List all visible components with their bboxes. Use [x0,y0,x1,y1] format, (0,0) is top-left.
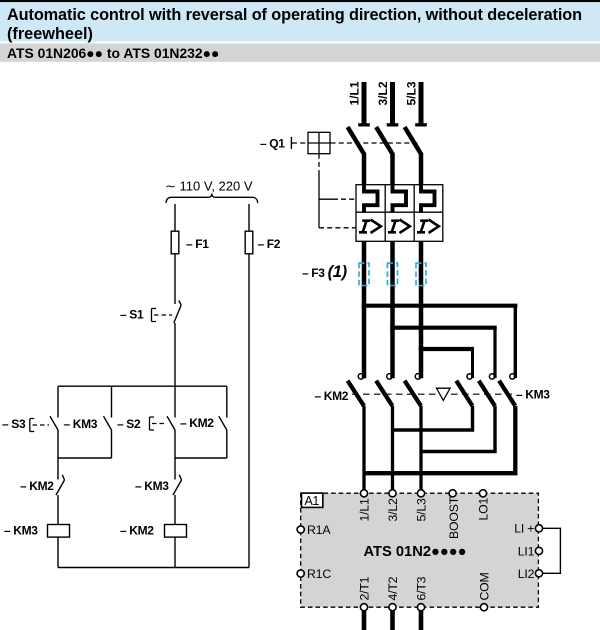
wire relay to KM2 pole3 [419,241,424,378]
KM3 output wire 3 to 1/L1 [364,406,515,473]
svg-text:4/T2: 4/T2 [386,576,400,600]
KM3 pole 2 contact arm [479,381,495,406]
crossover wire phase2 to KM3 pole2 [390,326,496,330]
terminal 5/L3 [417,490,424,497]
KM2 pole 1 contact arm [348,381,364,406]
svg-text:– KM3: – KM3 [64,417,98,431]
terminal 4/T2 [389,604,396,611]
Q1 link to relay (horizontals) [319,198,338,200]
S3/KM3 branch join [58,457,112,459]
terminal 2/T1 [360,604,367,611]
svg-text:– F1: – F1 [186,237,209,251]
thermal-magnetic relay box [356,185,443,242]
terminal BOOST [449,490,456,497]
top control rail [58,385,227,387]
svg-text:R1A: R1A [307,523,331,537]
coil KM2 [120,524,187,568]
fuse F3 pole 2 [388,263,398,285]
KM3 output wire 2 to 5/L3 [421,406,495,452]
Q1 switch pole 2 [376,127,392,185]
svg-text:– F3 (1): – F3 (1) [302,263,348,281]
coil KM3 [4,524,70,568]
phase input line 1/L1 [348,81,370,126]
push button S3 (forward) [2,386,58,458]
svg-text:COM: COM [478,572,492,600]
fuse F2 [245,231,253,254]
KM2 pole 2 terminal circle [387,374,393,380]
A1 tag [302,493,323,508]
switch S1 (NC stop) [120,300,181,323]
magnetic trip symbol I> pole 1 [359,220,381,234]
wire relay to KM2 pole2 [390,241,395,378]
Q1 link to relay (vertical) [318,154,320,175]
svg-text:(freewheel): (freewheel) [7,25,93,43]
top black rule [0,0,600,2]
KM3 pole 3 terminal circle [510,374,515,379]
svg-text:– KM2: – KM2 [180,416,214,430]
svg-text:– KM3: – KM3 [4,524,38,538]
KM2 output wire 2 [391,406,394,490]
svg-text:LI1: LI1 [518,545,535,559]
Q1 actuator tick [290,137,292,149]
terminal COM [480,604,487,611]
wire relay to KM2 pole1 [362,241,367,378]
aux contact KM3 (NO, latch) [64,386,112,458]
terminal R1A [297,526,304,533]
KM2 pole 3 contact arm [405,381,421,406]
interlock contact KM3 (NC) [135,458,182,525]
magnetic trip symbol I> pole 3 [417,220,439,234]
svg-text:– KM3: – KM3 [135,479,169,493]
KM2 output wire 3 [419,406,422,490]
wire from brace to F2 [248,204,250,231]
svg-text:3/L2: 3/L2 [386,498,400,521]
Q1 mechanical link dashes [292,142,420,144]
motor output wire 4/T2 [390,611,395,630]
aux contact KM2 (NO, latch) [180,386,227,458]
terminal LI1 [535,547,542,554]
svg-text:5/L3: 5/L3 [405,81,419,105]
bottom control rail [58,567,249,569]
svg-text:ATS 01N206●● to ATS 01N232●●: ATS 01N206●● to ATS 01N232●● [7,45,219,61]
right control rail F2 down [248,254,250,568]
terminal 3/L2 [389,490,396,497]
svg-text:6/T3: 6/T3 [415,576,429,600]
Q1 switch pole 1 [348,127,364,185]
terminal LI2 [535,570,542,577]
svg-text:1/L1: 1/L1 [348,81,362,105]
svg-text:ATS 01N2●●●●: ATS 01N2●●●● [364,544,467,560]
svg-text:– F2: – F2 [258,237,281,251]
terminal LI+ [535,525,542,532]
link triangle [437,388,451,400]
title band [0,2,600,41]
phase input line 5/L3 [405,81,427,126]
svg-text:– KM2: – KM2 [315,389,349,403]
terminal LO1 [479,490,486,497]
svg-text:BOOST: BOOST [447,496,461,539]
svg-text:Automatic control with reversa: Automatic control with reversal of opera… [7,6,582,24]
svg-text:– S1: – S1 [120,308,144,322]
KM3 pole 2 terminal circle [489,374,494,379]
phase input line 3/L2 [376,81,398,126]
svg-text:2/T1: 2/T1 [358,576,372,600]
svg-text:– KM3: – KM3 [516,388,550,402]
KM2 pole 3 terminal circle [415,374,421,380]
motor output wire 2/T1 [362,611,367,630]
svg-text:R1C: R1C [307,567,331,581]
control wire F1 to S1 [174,254,176,304]
svg-text:1/L1: 1/L1 [358,498,372,521]
svg-text:A1: A1 [305,494,320,508]
svg-text:– S3: – S3 [2,417,26,431]
fuse F3 pole 3 [416,263,426,285]
subtitle band [0,43,600,61]
KM2 output wire 1 [362,406,365,490]
push button S2 (reverse) [117,386,175,458]
svg-text:– KM2: – KM2 [20,479,54,493]
Q1 switch pole 3 [405,127,421,185]
terminal 6/T3 [417,604,424,611]
motor output wire 6/T3 [419,611,424,630]
supply brace [166,194,258,204]
KM3 pole 3 contact arm [499,381,515,406]
crossover wire phase3 to KM3 pole1 [419,347,474,351]
terminal R1C [297,570,304,577]
soft starter block A1 [301,493,539,607]
KM2 pole 2 contact arm [376,381,392,406]
KM2 pole 1 terminal circle [358,374,364,380]
svg-text:– S2: – S2 [117,417,141,431]
svg-text:3/L2: 3/L2 [376,81,390,105]
wire S1 to rail [174,323,176,386]
svg-text:LI2: LI2 [518,567,535,581]
terminal 1/L1 [360,490,367,497]
S2/KM2 branch join [175,457,227,459]
thermal element pole 2 [393,185,407,213]
jumper LI+ to LI2 [543,528,561,573]
svg-text:LO1: LO1 [477,497,491,520]
crossover wire phase1 to KM3 pole3 [362,304,518,308]
KM3 output wire 1 to 3/L2 [393,406,473,430]
thermal element pole 1 [364,185,378,213]
svg-text:– KM2: – KM2 [120,524,154,538]
interlock contact KM2 (NC) [20,458,65,525]
svg-text:∼ 110 V, 220 V: ∼ 110 V, 220 V [165,179,253,194]
magnetic trip symbol I> pole 2 [388,220,410,234]
svg-text:– Q1: – Q1 [260,137,285,151]
svg-text:LI +: LI + [514,522,534,536]
thermal element pole 3 [421,185,435,213]
svg-text:5/L3: 5/L3 [415,498,429,521]
fuse F3 pole 1 [359,263,369,285]
fuse F1 [171,231,179,254]
KM3 pole 1 terminal circle [467,374,472,379]
mechanical link KM2-KM3 [352,393,512,395]
Q1 trip unit box [308,132,330,153]
control wire from brace to F1 [174,204,176,231]
KM3 pole 1 contact arm [456,381,472,406]
